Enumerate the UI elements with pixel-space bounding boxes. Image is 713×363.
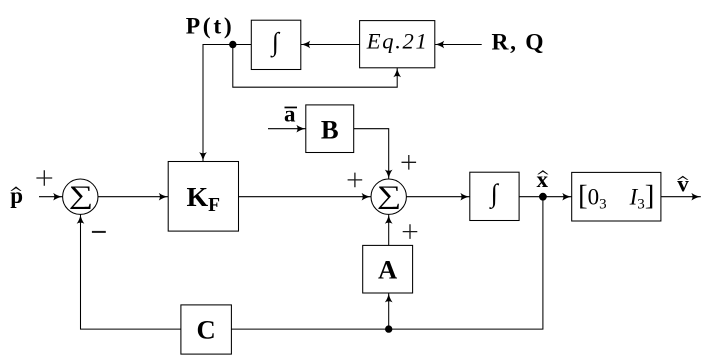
svg-text:∑: ∑ (69, 180, 93, 209)
svg-text:R, Q: R, Q (492, 29, 544, 55)
svg-text:a: a (284, 101, 296, 126)
svg-text:P(t): P(t) (186, 13, 232, 39)
svg-text:C: C (196, 314, 215, 344)
svg-text:p: p (10, 183, 23, 208)
svg-text:x: x (537, 167, 549, 192)
svg-text:v: v (677, 172, 689, 197)
svg-text:A: A (378, 254, 398, 284)
svg-text:Eq.21: Eq.21 (366, 28, 427, 53)
svg-text:∑: ∑ (377, 180, 401, 209)
svg-text:B: B (321, 115, 339, 145)
